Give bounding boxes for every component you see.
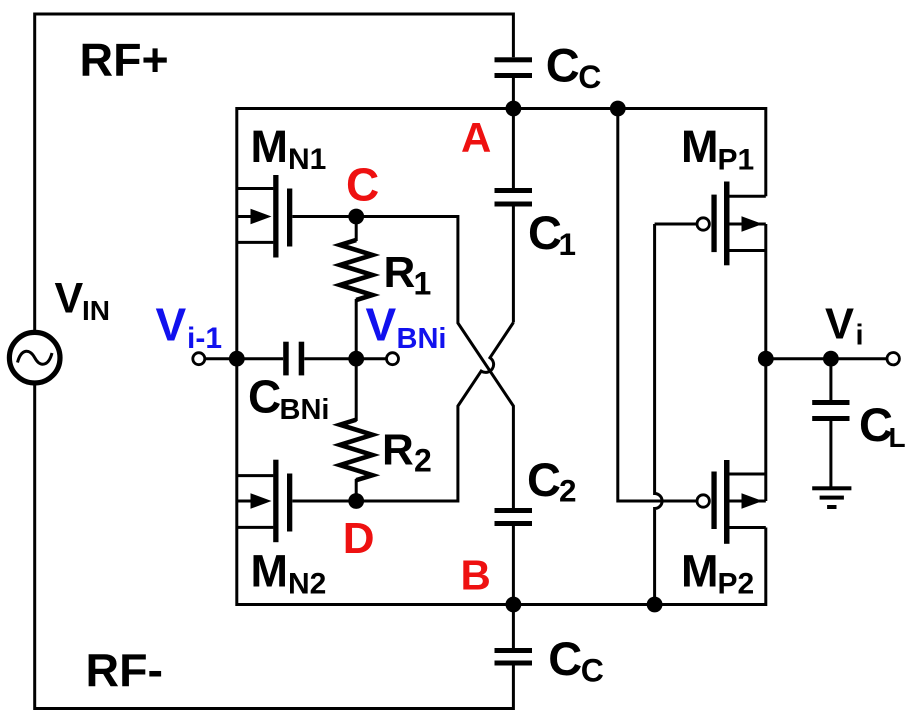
svg-text:i-1: i-1: [187, 322, 222, 355]
transistor MP2 (PMOS): [662, 460, 766, 544]
svg-text:BNi: BNi: [280, 394, 330, 426]
resistor R1: [340, 217, 373, 359]
svg-text:N1: N1: [288, 143, 326, 176]
wire MP2 gate from node A rail (vertical + horizontal to bubble): [618, 109, 697, 502]
svg-text:R: R: [382, 426, 414, 475]
node dot bottom rail right: [647, 597, 663, 613]
wire outer RF- loop (left vertical bottom + bottom wire to Cc): [35, 386, 514, 709]
capacitor CBNi: [283, 342, 386, 376]
svg-text:P1: P1: [718, 143, 755, 176]
wire right vertical upper (rail to MP1 drain): [764, 107, 767, 196]
svg-text:C: C: [248, 370, 281, 422]
label R1: [384, 248, 432, 302]
svg-text:M: M: [251, 546, 289, 597]
svg-text:2: 2: [559, 473, 577, 509]
node D dot: [348, 493, 364, 509]
svg-text:C: C: [528, 206, 562, 259]
svg-text:C: C: [581, 652, 604, 688]
wire output Vi: [766, 357, 887, 360]
svg-text:1: 1: [559, 226, 577, 262]
node dot top rail right: [610, 101, 626, 117]
resistor R2: [340, 359, 373, 501]
transistor MN2 (NMOS): [237, 460, 356, 543]
wire outer RF+ loop (left vertical top + top wire to Cc): [35, 14, 514, 330]
wire cross-couple C-to-C2 (node C to capacitor C2): [356, 217, 513, 509]
svg-text:C: C: [527, 453, 561, 506]
wire inner top rail (node A rail): [237, 107, 766, 110]
svg-text:M: M: [681, 546, 719, 597]
label Vi-1: [156, 298, 223, 355]
node A dot: [506, 101, 522, 117]
svg-text:V: V: [55, 274, 84, 322]
wire cross-couple C1-to-D with hop over other diagonal: [356, 323, 513, 502]
node C dot: [348, 209, 364, 225]
svg-text:R: R: [384, 248, 416, 297]
svg-text:A: A: [461, 114, 491, 161]
label CBNi: [248, 370, 329, 426]
capacitor CC bottom: [495, 605, 533, 666]
svg-text:N2: N2: [288, 568, 326, 601]
wire inner bottom rail (node B rail): [237, 603, 766, 606]
svg-text:M: M: [681, 121, 719, 172]
label MN1: [251, 121, 327, 176]
label Vi: [825, 301, 864, 352]
svg-text:C: C: [546, 39, 580, 92]
wire Vi-1 input to CBNi: [205, 357, 283, 360]
terminal VBNi (open circle): [387, 353, 399, 365]
label MP1: [681, 121, 754, 176]
svg-text:L: L: [889, 422, 906, 453]
svg-text:M: M: [251, 121, 289, 172]
label C2: [527, 453, 577, 508]
label MP2: [681, 546, 754, 601]
label VIN: [55, 274, 111, 326]
capacitor CL: [812, 359, 849, 488]
terminal Vi (open circle): [887, 353, 899, 365]
label MN2: [251, 546, 327, 601]
capacitor CC top: [495, 57, 533, 108]
svg-text:P2: P2: [718, 568, 755, 601]
svg-text:IN: IN: [82, 295, 110, 326]
svg-text:D: D: [343, 514, 375, 563]
label CL: [859, 398, 906, 453]
transistor MP1 (PMOS): [655, 182, 766, 266]
label R2: [382, 426, 432, 479]
label CC bottom: [548, 632, 604, 689]
label CC top: [546, 39, 602, 96]
wire right vertical middle (MP1 source to MP2 drain, output node): [764, 224, 767, 501]
ground symbol: [812, 486, 851, 509]
svg-text:i: i: [856, 320, 864, 352]
svg-text:V: V: [156, 298, 187, 350]
svg-text:C: C: [346, 159, 379, 211]
svg-text:V: V: [366, 298, 397, 350]
terminal Vi-1 (open circle): [193, 353, 205, 365]
wire inner left gate rail: [235, 107, 238, 606]
node B dot: [506, 597, 522, 613]
node dot on gate rail: [229, 351, 245, 367]
capacitor C1: [495, 109, 533, 323]
svg-text:2: 2: [414, 443, 432, 479]
label C1: [528, 206, 576, 262]
node dot output at right vertical: [758, 351, 774, 367]
transistor MN1 (NMOS): [237, 175, 356, 258]
node dot output at CL branch: [823, 351, 839, 367]
svg-text:C: C: [578, 59, 601, 95]
svg-text:BNi: BNi: [397, 323, 447, 355]
label VBNi: [366, 298, 447, 355]
svg-text:RF+: RF+: [80, 34, 169, 86]
svg-text:B: B: [461, 552, 491, 599]
node VBNi junction dot: [348, 351, 364, 367]
wire right vertical lower (MP2 source to rail): [764, 528, 767, 607]
source VIN (AC source circle with sine): [9, 332, 60, 383]
wire MP1 gate to node B rail with hop over MP2 gate wire: [655, 224, 663, 605]
svg-text:C: C: [548, 632, 582, 685]
svg-text:1: 1: [414, 265, 432, 301]
capacitor C2: [495, 508, 533, 605]
svg-text:RF-: RF-: [86, 644, 163, 696]
svg-text:V: V: [825, 301, 854, 349]
